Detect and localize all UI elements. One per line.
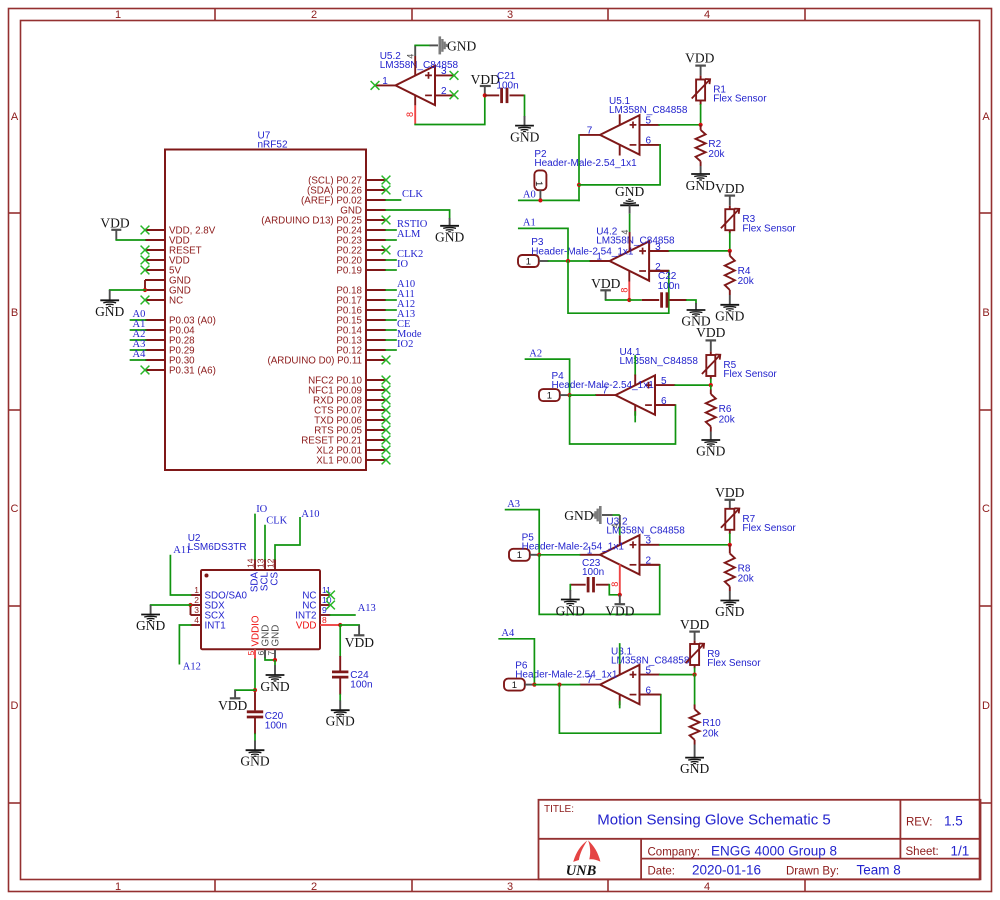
U3.2 reference labels: [606, 516, 685, 536]
svg-text:Team 8: Team 8: [857, 863, 901, 878]
flex sensor R1: [692, 76, 768, 105]
power flag VDD below left of C20: [218, 690, 255, 713]
svg-text:GND: GND: [136, 618, 165, 633]
power flag GND above U3.2: [564, 506, 600, 524]
wire U5.1 pin 5 to divider node: [659, 124, 700, 126]
wire net RSTIO stub at U7: [386, 229, 396, 231]
svg-text:A12: A12: [183, 661, 201, 672]
no-connect on U5.2 pin 1: [371, 81, 380, 90]
resistor R8: [725, 545, 755, 587]
svg-text:1: 1: [382, 76, 388, 87]
svg-text:4: 4: [704, 9, 710, 21]
junction U3.1 feedback node: [557, 683, 561, 687]
svg-text:TITLE:: TITLE:: [544, 804, 574, 815]
svg-text:VDD: VDD: [591, 276, 620, 291]
svg-text:4: 4: [704, 881, 710, 893]
svg-text:C: C: [11, 503, 19, 515]
wire U4.2 feedback: [568, 261, 669, 313]
svg-text:VDD: VDD: [605, 604, 634, 619]
svg-text:VDD: VDD: [345, 635, 374, 650]
wire net A2 to P4 node: [526, 359, 570, 395]
svg-text:Flex Sensor: Flex Sensor: [723, 369, 777, 380]
wire U2 SDX/SCX tie: [190, 605, 192, 615]
header P5 pin: [530, 554, 539, 556]
svg-text:VDD: VDD: [218, 698, 247, 713]
wire U5.1 output to A0 node: [578, 135, 580, 200]
svg-text:4: 4: [194, 615, 199, 625]
ground GND below R10: [680, 740, 709, 776]
svg-text:A4: A4: [133, 349, 147, 360]
svg-text:20k: 20k: [708, 149, 725, 160]
wire net ALM stub at U7: [386, 239, 396, 241]
U2 left pins: [191, 585, 248, 631]
svg-text:8: 8: [610, 582, 620, 587]
wire U3.1 feedback: [559, 685, 660, 734]
svg-text:A: A: [11, 111, 19, 123]
junction U2 VDDIO node: [253, 688, 257, 692]
U5.1 pin 8 stub: [619, 114, 621, 125]
svg-text:GND: GND: [686, 178, 715, 193]
capacitor C23: [570, 558, 620, 595]
U5.2 pin 8 wire (red) and supply wire to VDD/C21 node: [415, 95, 485, 125]
svg-text:GND: GND: [447, 38, 476, 53]
svg-text:9: 9: [322, 605, 327, 615]
ground GND below C20: [240, 741, 269, 769]
U4.1 pin 6 stub wire: [655, 404, 675, 406]
svg-text:GND: GND: [95, 304, 124, 319]
header P2: [534, 170, 546, 190]
svg-text:1: 1: [115, 9, 121, 21]
op-amp U5.1: [580, 115, 660, 154]
svg-text:100n: 100n: [658, 281, 680, 292]
wire net A0 stub at U7: [131, 319, 146, 321]
svg-text:UNB: UNB: [566, 863, 597, 879]
svg-text:IO2: IO2: [397, 339, 413, 350]
svg-text:A4: A4: [501, 628, 515, 639]
IC U7 nRF52 body: [165, 131, 366, 471]
wire net A10 stub at U7: [386, 289, 396, 291]
wire net CLK stub at U7: [386, 199, 401, 201]
wire net A2 stub at U7: [131, 339, 146, 341]
flex sensor R3: [721, 206, 797, 235]
wire net Mode stub at U7: [386, 339, 396, 341]
svg-text:LM358N_C84858: LM358N_C84858: [611, 655, 690, 666]
wire U2 pin 8 to supply node: [331, 624, 341, 626]
svg-text:A0: A0: [523, 190, 536, 201]
ground GND at U7 left: [95, 290, 124, 319]
wire C21 to ground: [524, 95, 526, 116]
svg-text:Header-Male-2.54_1x1: Header-Male-2.54_1x1: [552, 380, 655, 391]
svg-text:12: 12: [266, 558, 276, 568]
wire P6 to U3.1 output: [534, 684, 579, 686]
ground GND below R4: [715, 290, 744, 323]
svg-text:GND: GND: [680, 761, 709, 776]
wire net CE stub at U7: [386, 329, 396, 331]
svg-text:100n: 100n: [496, 80, 518, 91]
wire VDD to U7 pin VDD: [116, 239, 145, 241]
svg-text:GND: GND: [715, 604, 744, 619]
svg-text:A3: A3: [507, 499, 520, 510]
IC U2 LSM6DS3TR body: [188, 533, 320, 649]
svg-text:B: B: [11, 307, 18, 319]
U5.2 pin 4 stub: [414, 65, 416, 76]
wire net A4 to P6 node: [499, 639, 534, 685]
svg-text:6: 6: [256, 651, 266, 656]
wire R3 to divider node: [729, 233, 731, 251]
svg-text:8: 8: [619, 288, 629, 293]
wire net IO2 stub at U7: [386, 349, 396, 351]
resistor R4: [725, 251, 755, 290]
U7 left no-connect flags: [141, 226, 150, 375]
capacitor C21: [485, 71, 525, 103]
U4.2 pin 8 wire (red) to VDD/C22 node: [628, 271, 630, 301]
wire net CLK2 stub at U7: [386, 259, 396, 261]
U3.2 pin 2 stub wire: [640, 564, 660, 566]
svg-text:XL1 P0.00: XL1 P0.00: [316, 455, 362, 466]
U2 right pins: [295, 585, 331, 631]
svg-text:3: 3: [646, 536, 652, 547]
ground GND below R6: [696, 427, 725, 459]
svg-text:4: 4: [620, 230, 630, 235]
ground GND below C21: [510, 116, 539, 144]
wire C23 to ground: [569, 585, 571, 590]
svg-text:Header-Male-2.54_1x1: Header-Male-2.54_1x1: [515, 670, 618, 681]
svg-text:100n: 100n: [350, 680, 372, 691]
junction P5 output node: [537, 553, 541, 557]
svg-text:2: 2: [194, 595, 199, 605]
wire U7 GND pin to ground: [386, 210, 450, 218]
svg-text:Header-Male-2.54_1x1: Header-Male-2.54_1x1: [534, 158, 637, 169]
svg-text:Motion Sensing Glove Schematic: Motion Sensing Glove Schematic 5: [597, 812, 830, 829]
svg-text:1: 1: [194, 585, 199, 595]
border column numbers: [115, 9, 710, 893]
svg-text:Flex Sensor: Flex Sensor: [707, 658, 761, 669]
flex sensor R5: [702, 352, 778, 381]
svg-text:5: 5: [646, 665, 652, 676]
svg-text:INT1: INT1: [205, 621, 226, 632]
power flag VDD above R5: [696, 325, 725, 351]
wire net A13 stub at U7: [386, 319, 396, 321]
power flag VDD above R1: [685, 50, 714, 75]
junction U7 GND pins: [143, 288, 147, 292]
border row letters: [11, 111, 991, 712]
wire net A12 stub at U7: [386, 309, 396, 311]
wire U7 GND pins tie: [144, 280, 146, 290]
wire net A11 stub at U7: [386, 299, 396, 301]
junction P6 pin node: [532, 683, 536, 687]
svg-text:VDD: VDD: [100, 216, 129, 231]
svg-text:ENGG 4000 Group 8: ENGG 4000 Group 8: [711, 844, 837, 859]
power flag VDD above R9: [680, 617, 709, 641]
svg-text:Header-Male-2.54_1x1: Header-Male-2.54_1x1: [522, 542, 625, 553]
svg-text:6: 6: [646, 136, 652, 147]
svg-text:5: 5: [646, 116, 652, 127]
svg-text:nRF52: nRF52: [258, 140, 288, 151]
svg-text:CLK: CLK: [402, 189, 423, 200]
svg-text:A10: A10: [301, 509, 319, 520]
svg-text:D: D: [11, 700, 19, 712]
wire net A4 stub at U7: [131, 359, 146, 361]
svg-text:3: 3: [507, 9, 513, 21]
svg-text:A: A: [982, 111, 990, 123]
wire net A1 stub at U7: [131, 329, 146, 331]
wire U2 VDDIO pin to supply node: [254, 659, 256, 690]
ground GND below U2: [260, 660, 289, 694]
junction R3/R4 divider: [728, 249, 732, 253]
wire U3.2 feedback: [539, 555, 660, 615]
junction U2 pin 2: [188, 603, 192, 607]
svg-text:P0.19: P0.19: [336, 265, 362, 276]
wire C22 to ground: [687, 300, 696, 303]
svg-text:VDD: VDD: [715, 181, 744, 196]
header P6 pin: [525, 684, 535, 686]
flex sensor R7: [721, 508, 797, 534]
U7 left pins: [145, 225, 216, 376]
resistor R10: [690, 705, 722, 740]
svg-text:P0.31 (A6): P0.31 (A6): [169, 365, 216, 376]
junction U4.2 supply node: [627, 298, 631, 302]
junction P4 output node: [568, 393, 572, 397]
junction R9/R10 divider: [693, 673, 697, 677]
svg-text:GND: GND: [715, 308, 744, 323]
U4.1 reference labels: [620, 347, 699, 367]
junction P3 output node: [566, 259, 570, 263]
junction U5.1 feedback: [577, 183, 581, 187]
wire net CLK to U2 pin 13: [264, 526, 266, 559]
svg-text:A1: A1: [523, 218, 536, 229]
power flag VDD at C22: [591, 276, 629, 300]
ground GND at U7 right: [435, 218, 464, 245]
ground GND at U2 left: [136, 605, 165, 633]
svg-text:CLK: CLK: [266, 515, 287, 526]
U3.1 pin 8 wire stub: [619, 644, 621, 675]
op-amp U3.1: [580, 665, 660, 704]
no-connect on U2 pin 10: [326, 601, 335, 610]
wire U2 pin 2 to ground: [151, 604, 191, 606]
svg-text:Flex Sensor: Flex Sensor: [713, 94, 767, 105]
svg-text:20k: 20k: [719, 414, 736, 425]
U4.2 pin 2 stub wire: [649, 270, 669, 272]
UNB logo: [566, 840, 601, 878]
header P4 pin: [560, 394, 570, 396]
U4.1 pin 8 wire stub: [634, 356, 636, 386]
svg-text:5: 5: [661, 376, 667, 387]
junction R7/R8 divider: [728, 543, 732, 547]
wire U3.2 pin 3 to divider node: [660, 544, 730, 546]
svg-text:Company:: Company:: [648, 847, 700, 859]
power flag GND above U5.2: [440, 36, 477, 54]
wire C20 to ground: [254, 734, 256, 740]
title block frame: [539, 800, 981, 880]
svg-text:2020-01-16: 2020-01-16: [692, 863, 761, 878]
ground GND below C23: [556, 590, 585, 618]
svg-text:GND: GND: [240, 754, 269, 769]
capacitor C24: [332, 625, 373, 695]
svg-text:8: 8: [322, 615, 327, 625]
svg-text:5: 5: [246, 651, 256, 656]
svg-text:3: 3: [507, 881, 513, 893]
flex sensor R9: [686, 641, 762, 669]
svg-text:4: 4: [406, 54, 416, 59]
wire U7 GND pins to ground: [110, 289, 145, 291]
wire net A3 to P5 node: [506, 510, 540, 555]
op-amp U4.2: [589, 241, 669, 280]
U3.1 reference labels: [611, 646, 690, 666]
svg-text:7: 7: [266, 651, 276, 656]
wire U3.2 pin 4 to GND flag: [602, 515, 620, 545]
op-amp U3.2: [580, 535, 660, 574]
wire net A1 to P3 node: [519, 228, 568, 261]
U5.2 reference labels: [380, 51, 459, 71]
svg-text:REV:: REV:: [906, 817, 932, 829]
junction U2 VDD node: [338, 623, 342, 627]
svg-text:Header-Male-2.54_1x1: Header-Male-2.54_1x1: [531, 246, 634, 257]
wire net A11 to U2 pin 1: [170, 556, 190, 595]
svg-text:Date:: Date:: [648, 866, 676, 878]
svg-text:VDD: VDD: [715, 485, 744, 500]
svg-text:A2: A2: [529, 348, 542, 359]
header P6: [504, 679, 525, 691]
U3.1 pin 6 stub wire: [640, 694, 661, 696]
svg-text:2: 2: [311, 881, 317, 893]
power flag VDD at C21: [471, 72, 500, 96]
U5.1 pin 4 stub: [619, 144, 621, 155]
power flag VDD right of U2: [340, 625, 374, 650]
junction P2-A0: [538, 198, 542, 202]
U2 top pins: [246, 558, 281, 592]
svg-text:4: 4: [610, 523, 620, 528]
svg-text:GND: GND: [326, 714, 355, 729]
power flag VDD for U7: [100, 216, 129, 241]
svg-text:Flex Sensor: Flex Sensor: [742, 523, 796, 534]
wire U4.2 pin 3 to divider node: [669, 250, 729, 252]
svg-text:VDD: VDD: [696, 325, 725, 340]
power flag VDD above R3: [715, 181, 744, 206]
svg-text:Drawn By:: Drawn By:: [786, 866, 839, 878]
resistor R6: [706, 385, 736, 426]
wire net A3 stub at U7: [131, 349, 146, 351]
title block texts: [544, 804, 969, 878]
svg-text:GND: GND: [260, 679, 289, 694]
op-amp U4.1: [595, 375, 675, 414]
U7 right no-connect flags: [382, 176, 391, 465]
svg-text:GND: GND: [271, 625, 282, 647]
wire net IO to U2 pin 14: [254, 515, 256, 560]
wire net A12 from U2 pin 4: [179, 625, 190, 664]
wire net A0: [519, 199, 579, 201]
svg-text:D: D: [982, 700, 990, 712]
svg-text:GND: GND: [556, 603, 585, 618]
header P3 pin: [539, 260, 549, 262]
junction R1/R2 divider: [699, 123, 703, 127]
capacitor C20: [247, 692, 287, 734]
svg-text:1: 1: [526, 256, 531, 267]
inverted ground GND above U4.2 pin 4: [615, 184, 644, 252]
svg-text:1/1: 1/1: [951, 844, 970, 859]
wire R7 to divider node: [729, 534, 731, 545]
header P3: [518, 255, 539, 267]
svg-text:VDD: VDD: [296, 621, 317, 632]
svg-text:8: 8: [405, 112, 415, 117]
junction R5/R6 divider: [709, 383, 713, 387]
svg-text:B: B: [982, 307, 989, 319]
power flag VDD above R7: [715, 485, 744, 509]
svg-text:LM358N_C84858: LM358N_C84858: [620, 356, 699, 367]
wire P3 to U4.2 output: [549, 260, 590, 262]
U4.1 pin 4 stub: [634, 405, 636, 422]
svg-text:NC: NC: [169, 295, 183, 306]
wire R1 to divider node: [700, 105, 702, 125]
capacitor C22: [629, 271, 687, 308]
wire U3.1 pin 5 to divider node: [660, 674, 695, 676]
wire U5.1 feedback from pin 6: [579, 145, 660, 185]
svg-text:ALM: ALM: [397, 229, 421, 240]
wire net A10 to U2 pin 12: [275, 518, 300, 559]
wire C24 to ground: [339, 695, 341, 701]
svg-text:LM358N_C84858: LM358N_C84858: [609, 105, 688, 116]
U5.1 reference labels: [609, 96, 688, 116]
svg-text:1: 1: [533, 181, 544, 186]
header P2 pin: [539, 190, 541, 200]
header P4: [539, 389, 560, 401]
wire P4 to U4.1 output: [570, 394, 595, 396]
wire net A13 from U2 pin 9: [331, 614, 355, 616]
svg-text:IO: IO: [397, 259, 408, 270]
svg-text:GND: GND: [615, 184, 644, 199]
svg-text:IO: IO: [256, 504, 267, 515]
wire U5.2 pin 4 to GND flag: [415, 45, 438, 64]
wire P5 to U3.2 output: [539, 554, 579, 556]
svg-text:GND: GND: [564, 508, 593, 523]
svg-text:LSM6DS3TR: LSM6DS3TR: [188, 542, 247, 553]
power flag VDD below U3.2: [605, 595, 634, 619]
junction U3.2 supply node: [618, 593, 622, 597]
svg-text:100n: 100n: [582, 567, 604, 578]
svg-text:20k: 20k: [738, 276, 755, 287]
junction U2 ground pins: [273, 658, 277, 662]
svg-text:13: 13: [256, 558, 266, 568]
svg-text:1: 1: [547, 391, 552, 402]
no-connect on U5.2 pin 2: [450, 90, 459, 99]
U2 bottom pins: [246, 615, 282, 660]
svg-text:GND: GND: [696, 444, 725, 459]
svg-text:CS: CS: [270, 572, 281, 586]
svg-text:VDD: VDD: [680, 617, 709, 632]
wire U2 GND pins tie: [265, 658, 275, 660]
svg-text:10: 10: [322, 595, 332, 605]
svg-text:2: 2: [441, 86, 447, 97]
header P5: [509, 549, 530, 561]
svg-text:GND: GND: [510, 129, 539, 144]
svg-text:LM358N_C84858: LM358N_C84858: [596, 236, 675, 247]
wire U4.1 pin 5 to divider node: [675, 384, 710, 386]
svg-text:A13: A13: [358, 603, 376, 614]
wire U4.1 feedback: [570, 395, 676, 444]
svg-text:(ARDUINO D0) P0.11: (ARDUINO D0) P0.11: [267, 355, 362, 366]
svg-text:20k: 20k: [738, 574, 755, 585]
svg-text:20k: 20k: [702, 728, 719, 739]
svg-text:1.5: 1.5: [944, 814, 963, 829]
svg-text:1: 1: [115, 881, 121, 893]
junction VDD/C21 node: [483, 93, 487, 97]
svg-text:100n: 100n: [265, 720, 287, 731]
no-connect on U5.2 pin 3: [450, 71, 459, 80]
ground GND below C24: [326, 700, 355, 728]
wire R5 to divider node: [710, 379, 712, 385]
wire divider to R10: [694, 675, 696, 705]
wire R9 to divider node: [694, 668, 696, 674]
svg-text:1: 1: [512, 680, 517, 691]
